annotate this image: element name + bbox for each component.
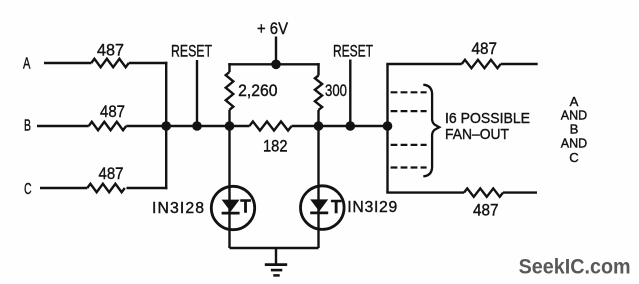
svg-text:FAN–OUT: FAN–OUT [445, 127, 509, 143]
ground bar 1 [265, 263, 287, 266]
node left column on B bus [225, 121, 235, 131]
wire +6V stem [275, 37, 277, 65]
wire RESET right stem [349, 60, 351, 127]
wire A to junction column [129, 62, 168, 64]
svg-text:300: 300 [325, 81, 347, 100]
svg-text:T: T [240, 197, 251, 217]
resistor R 487 (output top) [462, 60, 501, 68]
fan-out brace [423, 85, 439, 177]
tunnel diode 1N3129 circle [301, 186, 345, 230]
wire 300 top lead [317, 63, 319, 75]
svg-text:A: A [570, 94, 579, 109]
svg-text:AND: AND [561, 135, 587, 150]
resistor R 2,260 [226, 72, 234, 110]
wire output bottom right [503, 191, 537, 193]
wire output bottom lead [386, 191, 464, 193]
tunnel diode 1N3129 cathode bar [310, 211, 328, 214]
resistor R 487 (input A) [91, 59, 129, 67]
wire A input [44, 62, 91, 64]
wire junction column A-C [165, 62, 167, 189]
svg-text:I6 POSSIBLE: I6 POSSIBLE [445, 111, 530, 127]
fan-out dashed line 2 [391, 110, 427, 112]
resistor R 487 (output bottom) [464, 188, 503, 196]
wire B bus 182 to fanout node [292, 125, 388, 127]
svg-text:487: 487 [97, 41, 124, 60]
node +6V on rail [271, 60, 281, 70]
wire C input [40, 187, 87, 189]
wire top supply rail [228, 63, 319, 65]
wire 2260 top lead [228, 63, 230, 72]
svg-text:A: A [23, 55, 31, 72]
svg-text:487: 487 [100, 102, 125, 121]
ground bar 3 [273, 274, 279, 277]
svg-text:IN3I29: IN3I29 [347, 199, 397, 216]
node RESET right [346, 121, 356, 131]
svg-text:RESET: RESET [333, 42, 373, 60]
tunnel diode 1N3128 circle [211, 186, 254, 229]
resistor R 487 (input B) [89, 122, 127, 130]
svg-text:+ 6V: + 6V [257, 19, 289, 38]
wire RESET left stem [196, 60, 198, 126]
wire fan-out vertical [386, 64, 388, 193]
fan-out dashed line 4 [391, 166, 427, 168]
wire B bus to 182 [126, 125, 249, 127]
svg-text:T: T [331, 197, 342, 217]
ground stem [275, 248, 277, 264]
wire left column through diode to bottom rail [228, 110, 230, 248]
fan-out dashed line 3 [391, 144, 427, 146]
resistor R 300 [315, 76, 322, 111]
fan-out dashed line 1 [391, 91, 427, 93]
wire C to junction column [127, 187, 168, 189]
tunnel diode 1N3128 triangle [222, 200, 240, 212]
ground bar 2 [271, 269, 282, 272]
svg-text:SeekIC.com: SeekIC.com [519, 256, 631, 279]
svg-text:2,260: 2,260 [238, 81, 277, 100]
node fan-out column [383, 121, 393, 131]
wire right column through diode to bottom rail [317, 110, 319, 248]
wire output top right [501, 63, 538, 65]
node junction A-B-C [161, 121, 171, 131]
resistor R 487 (input C) [87, 184, 125, 192]
wire output top lead [386, 63, 461, 65]
node RESET left [192, 121, 202, 131]
svg-text:182: 182 [263, 137, 288, 156]
wire B input [37, 125, 89, 127]
svg-text:B: B [570, 121, 579, 136]
svg-text:C: C [569, 150, 579, 165]
svg-text:487: 487 [99, 164, 124, 183]
svg-text:RESET: RESET [171, 42, 212, 60]
node right column on B bus [314, 121, 324, 131]
svg-text:487: 487 [472, 39, 498, 58]
svg-text:C: C [24, 181, 32, 198]
tunnel diode 1N3128 cathode bar [222, 212, 240, 215]
svg-text:487: 487 [473, 201, 499, 220]
wire bottom rail [230, 247, 319, 249]
svg-text:IN3I28: IN3I28 [152, 200, 204, 217]
tunnel diode 1N3129 triangle [310, 199, 328, 211]
svg-text:B: B [24, 117, 31, 134]
resistor R 182 [249, 122, 291, 131]
